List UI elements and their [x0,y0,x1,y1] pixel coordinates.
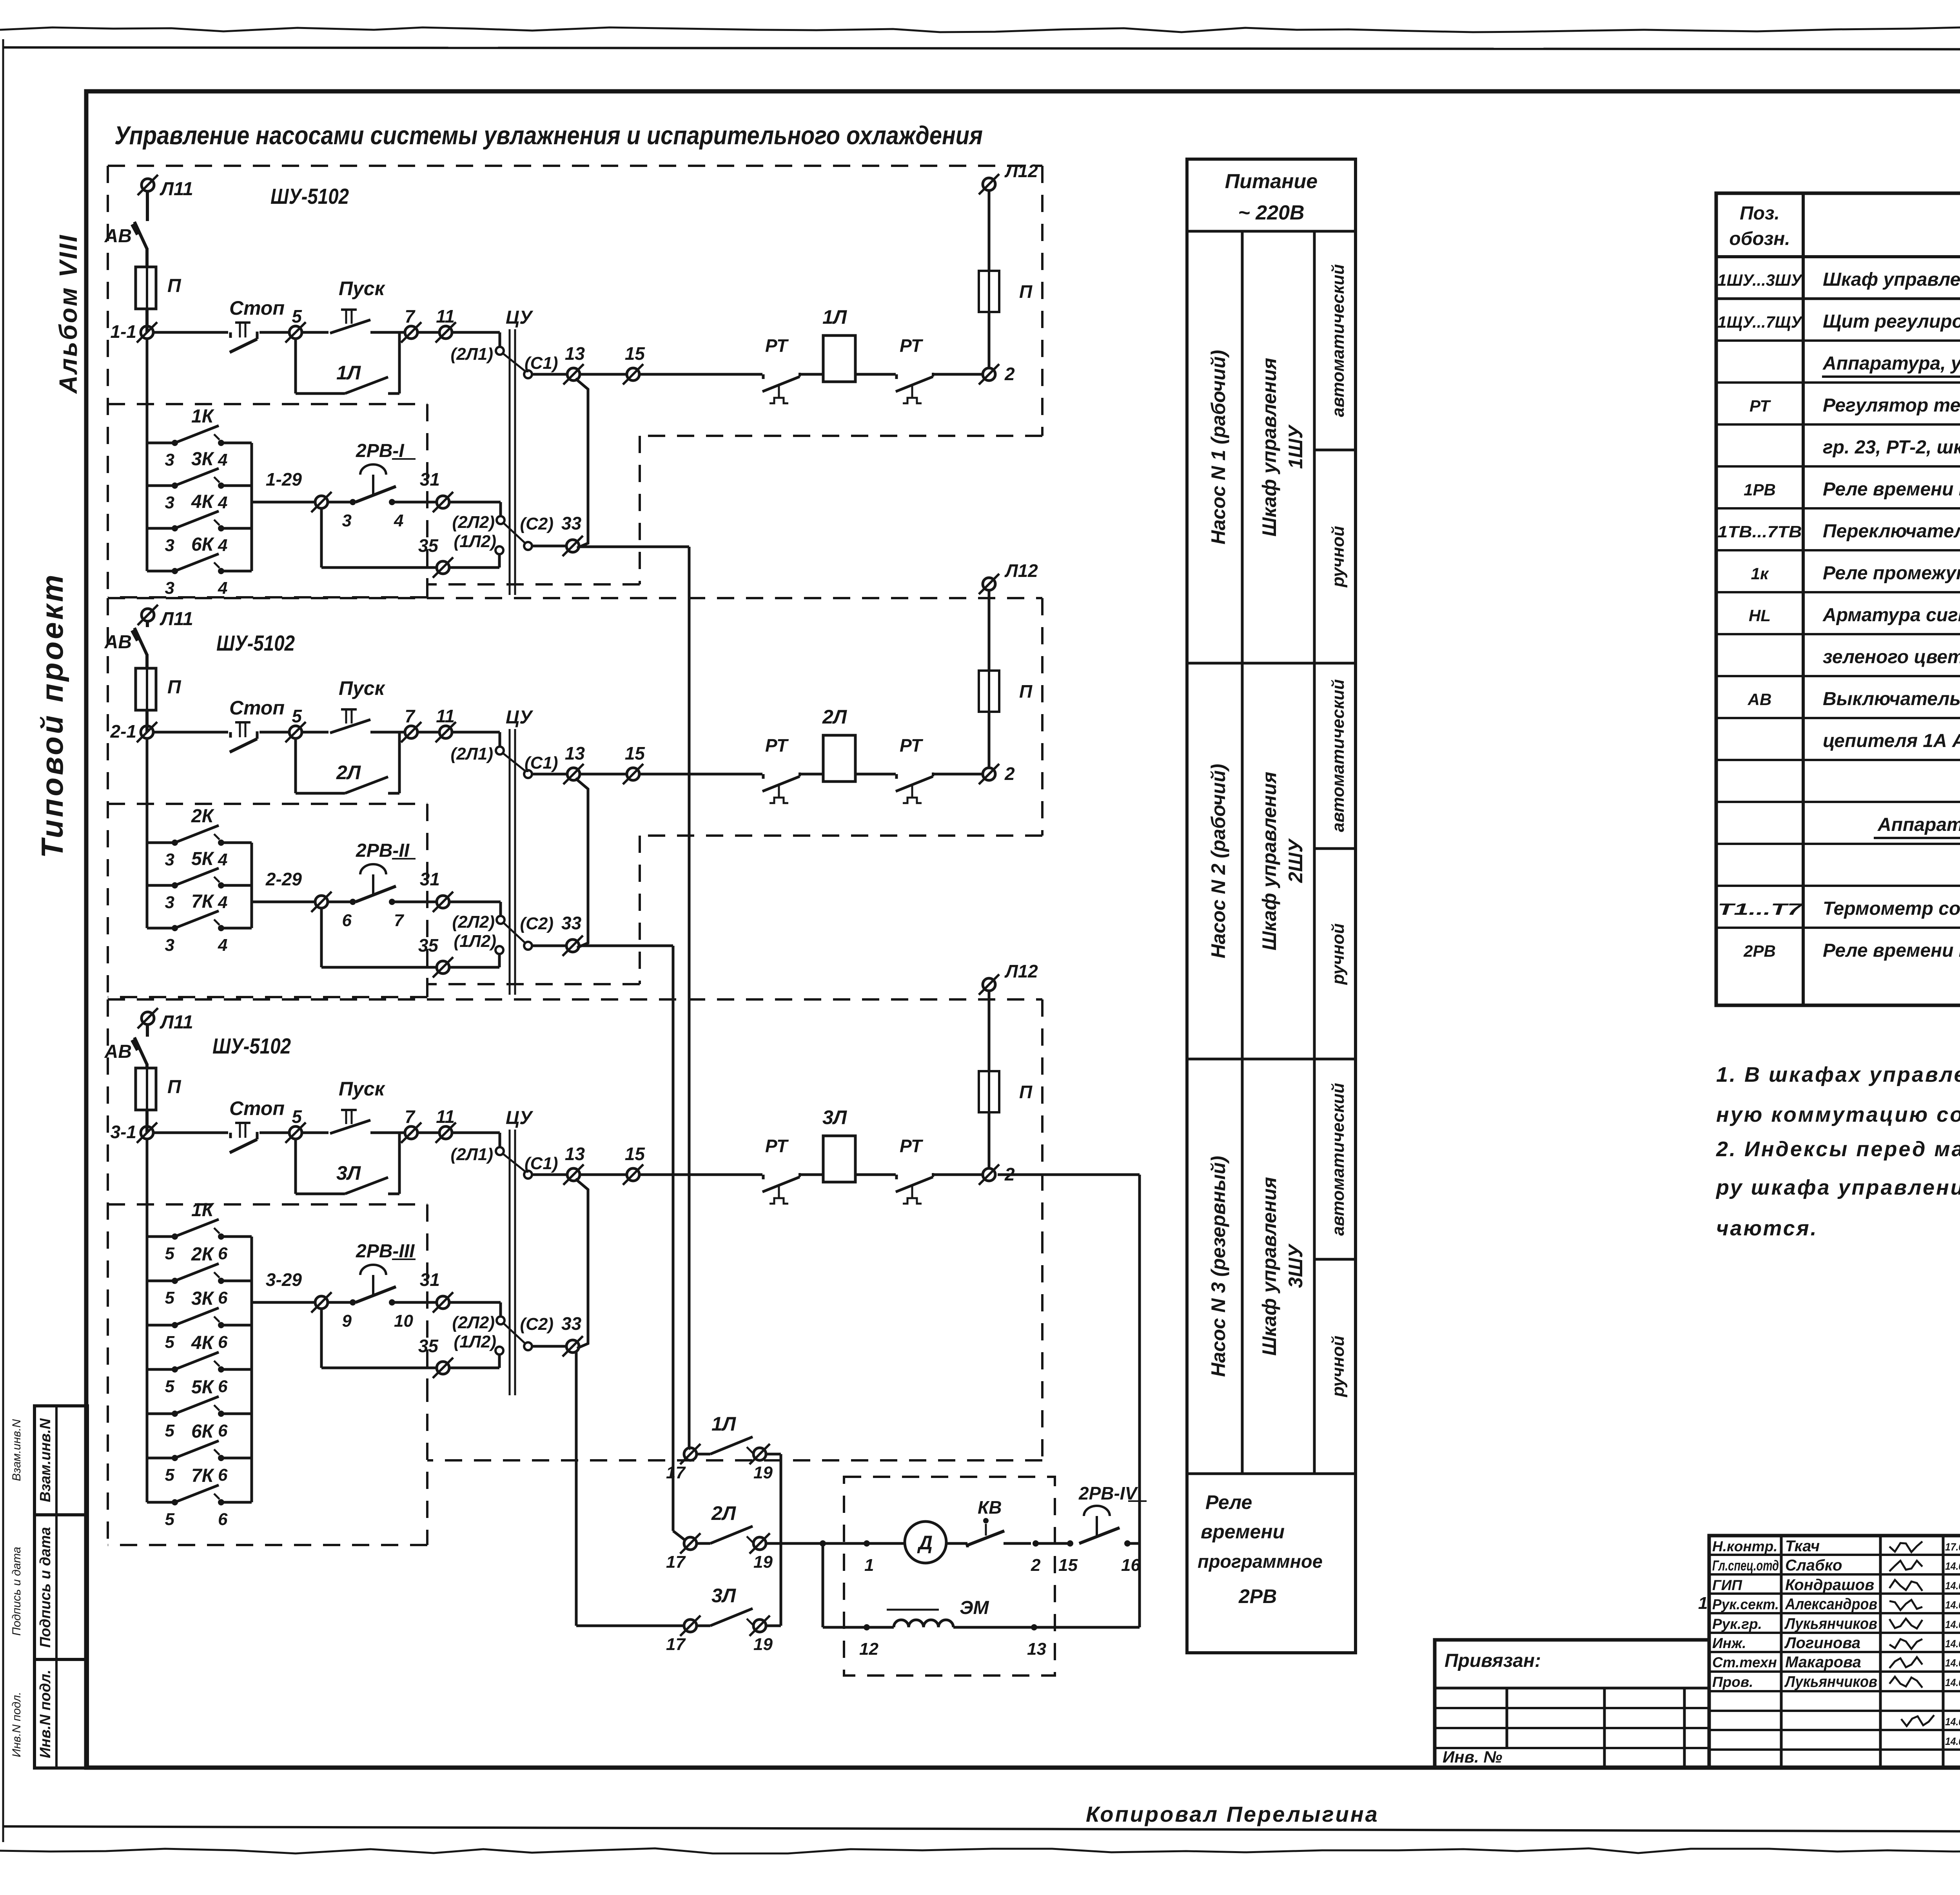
node (2Л2) (block 2) [497,916,505,924]
bus ЦУ (block 2) [509,729,511,995]
start pushbutton Пуск (block 1) [341,308,357,311]
svg-text:ГИП: ГИП [1712,1577,1742,1593]
paper bottom edge (scan) [0,1848,1960,1853]
wire [146,621,149,627]
relay contact 2К (block 2) [147,841,175,844]
ШУ-5102 cabinet 1 dashed outline [108,165,1042,167]
terminal Л12 (block 3) [983,978,995,991]
fuse П right (block 2) [979,671,999,712]
component row 7: Переключатель-тумблер ТЗ ВРО [1716,549,1960,551]
program time relay unit dashed box [844,1477,1055,1676]
svg-text:Александров: Александров [1785,1596,1877,1613]
svg-text:2ШУ: 2ШУ [1285,838,1307,883]
svg-text:ручной: ручной [1328,923,1348,985]
rail from 2-1 down to interlock ladder (block 2) [146,738,149,928]
wire [392,501,437,504]
svg-text:(2Л1): (2Л1) [451,744,493,763]
relay contact 1К (block 3) [147,1235,175,1238]
wire from 3-29 down to 35 row [320,1308,323,1368]
wire [855,773,896,776]
svg-text:АВ: АВ [104,632,132,653]
wire [532,373,568,376]
svg-text:Шкаф управления: Шкаф управления [1258,772,1280,950]
svg-text:3К: 3К [191,1288,215,1309]
svg-text:10: 10 [394,1311,413,1331]
wire [392,901,437,903]
wire [449,501,501,504]
changeover node (2Л1) (block 3) [496,1147,504,1155]
svg-text:Лукьянчиков: Лукьянчиков [1784,1615,1877,1632]
wire [503,1323,526,1344]
wire from 1-29 down to 35 row [320,508,323,568]
time relay contact 2РВ-IV [1084,1506,1110,1516]
thermal contact РТ left (block 2) [762,774,765,779]
svg-text:ру шкафа управления 1ШУ...: ру шкафа управления 1ШУ... 3ШУ, к которо… [1715,1176,1960,1199]
svg-text:Л12: Л12 [1004,560,1038,581]
node (С2) (block 1) [524,542,532,550]
fuse П right (block 1) [979,271,999,312]
component row 14: Аппаратура по месту [1716,843,1960,845]
svg-text:Взам.инв.N: Взам.инв.N [37,1418,54,1502]
terminal 2-29 (block 2) [315,896,328,908]
svg-text:П: П [1019,681,1033,702]
wire [301,331,328,334]
node 2 [1033,1540,1039,1547]
wire riser from 13 to 33 row [575,778,588,948]
wire [260,331,290,334]
node (С2) (block 2) [524,942,532,950]
svg-text:2: 2 [1004,364,1015,384]
time relay contact 2РВ-I (block 1) [350,499,356,505]
terminal 15 (block 2) [627,768,639,780]
circuit breaker АВ (block 3) [134,1037,147,1064]
electromagnet coil ЭМ [894,1620,953,1627]
wire [503,522,526,544]
svg-text:(1Л2): (1Л2) [454,532,496,551]
svg-text:5К: 5К [191,1377,215,1398]
svg-text:автоматический: автоматический [1328,264,1348,417]
wire [449,901,501,903]
svg-text:5: 5 [165,1421,175,1440]
svg-text:Ткач: Ткач [1785,1538,1820,1555]
svg-text:15: 15 [1058,1556,1078,1575]
svg-text:(1Л2): (1Л2) [454,932,496,951]
feed table row Насос N2 [1187,662,1356,665]
svg-text:Слабко: Слабко [1785,1557,1842,1574]
interlock ladder right rail (block 1) [250,443,253,571]
relay contact 3Л (pump indication) [684,1619,697,1632]
svg-text:ШУ-5102: ШУ-5102 [270,184,349,209]
svg-text:П: П [167,1077,181,1097]
terminal 3-1 (block 3) [141,1126,153,1139]
svg-text:17: 17 [666,1463,686,1482]
terminal 2 (block 1) [983,368,995,381]
svg-text:4: 4 [218,893,227,912]
svg-text:5: 5 [292,1106,302,1127]
component row 11: Выключатель автоматический [1716,717,1960,719]
rail from 3-1 down to interlock ladder (block 3) [146,1139,149,1502]
svg-text:Л11: Л11 [160,609,193,629]
svg-text:35: 35 [418,1336,439,1356]
svg-text:зеленого цвета АС-220: зеленого цвета АС-220 [1823,647,1960,667]
svg-text:Пров.: Пров. [1712,1674,1753,1690]
terminal 7 (block 1) [405,326,417,339]
svg-text:АВ: АВ [104,1041,132,1062]
terminal 15 (block 1) [627,368,639,381]
svg-text:Питание: Питание [1225,170,1318,193]
svg-text:7К: 7К [191,891,215,912]
svg-text:автоматический: автоматический [1328,1083,1348,1236]
svg-text:5: 5 [292,306,302,326]
svg-text:1: 1 [864,1556,874,1575]
ШУ-5102 cabinet 2 dashed outline [108,597,1042,599]
terminal 11 (block 2) [439,726,452,738]
node (С2) (block 3) [524,1342,532,1350]
wire [953,1626,1140,1629]
svg-text:33: 33 [561,913,582,933]
svg-text:3: 3 [165,493,174,512]
svg-text:35: 35 [418,935,439,956]
svg-text:Стоп: Стоп [229,1097,285,1119]
terminal 31 (block 2) [437,896,449,908]
wire [1036,1542,1068,1545]
terminal 33 (block 2) [566,939,579,952]
svg-text:9: 9 [342,1311,352,1331]
wire [370,1132,405,1134]
wire from block3 terminal 33 to contact 3Л [575,1351,578,1626]
component row 3: Аппаратура, установленная на [1716,381,1960,384]
component row 5: гр. 23, РТ-2, шкала 0... [1716,465,1960,468]
svg-text:Стоп: Стоп [229,697,285,719]
svg-text:Пуск: Пуск [339,677,386,699]
svg-text:(2Л2): (2Л2) [452,513,495,532]
wire [145,309,149,332]
svg-text:19: 19 [753,1635,773,1654]
wire [800,373,823,376]
svg-text:5: 5 [292,706,302,726]
wire [988,190,991,271]
wire [449,1367,499,1369]
changeover node (2Л1) (block 1) [496,347,504,355]
svg-text:HL: HL [1749,606,1771,625]
svg-text:Шкаф управления: Шкаф управления [1258,1177,1280,1356]
svg-text:13: 13 [565,1144,585,1164]
wire [855,373,896,376]
latching contact 2Л (block 2) [294,738,297,793]
svg-text:Ст.техн: Ст.техн [1712,1654,1777,1670]
svg-text:2РВ: 2РВ [1743,942,1776,960]
component row 8: Реле промежуточное РПУ-1-0 [1716,591,1960,593]
svg-text:РТ: РТ [900,735,924,756]
terminal 11 (block 3) [439,1126,452,1139]
svg-text:Лукьянчиков: Лукьянчиков [1784,1673,1877,1690]
svg-text:6: 6 [218,1510,228,1529]
svg-text:Термометр сопротивления, гр.: Термометр сопротивления, гр. 23, ТСМ-609… [1823,898,1960,919]
svg-text:РТ: РТ [900,335,924,356]
terminal 31 (block 1) [437,496,449,508]
contactor coil 2Л (block 2) [823,735,855,782]
wire [327,1301,353,1304]
wire from block1 terminal 33 to contact 1Л [579,546,689,548]
wire [153,1132,228,1134]
svg-text:(С2): (С2) [520,914,554,933]
node 1 [864,1540,870,1547]
svg-text:14.01.86: 14.01.86 [1945,1599,1960,1611]
svg-text:16: 16 [1121,1556,1140,1575]
svg-text:5: 5 [165,1244,175,1263]
start pushbutton Пуск (block 3) [341,1109,357,1111]
svg-text:П: П [1019,281,1033,302]
svg-text:Насос N 1 (рабочий): Насос N 1 (рабочий) [1207,350,1229,545]
svg-text:РТ: РТ [765,335,789,356]
svg-text:14.01.86: 14.01.86 [1945,1677,1960,1688]
wire [532,545,567,548]
svg-text:КВ: КВ [978,1497,1002,1518]
svg-text:17.01.86: 17.01.86 [1945,1541,1960,1553]
svg-text:1-29: 1-29 [266,469,302,490]
thermal contact РТ right (block 1) [895,374,898,379]
svg-text:обозн.: обозн. [1729,228,1790,249]
svg-text:3: 3 [165,893,174,912]
svg-text:ЭМ: ЭМ [960,1598,989,1618]
svg-text:Кондрашов: Кондрашов [1785,1576,1874,1594]
svg-text:Д: Д [917,1532,933,1554]
wire [327,901,353,903]
svg-text:14.01.86: 14.01.86 [1945,1735,1960,1747]
svg-text:6К: 6К [191,1421,215,1442]
component row 16: Термометр сопротивления, г [1716,927,1960,929]
wire [503,1153,526,1172]
component row 10: зеленого цвета АС-220 [1716,675,1960,677]
svg-text:7: 7 [405,1106,416,1127]
relay contact 3К (block 3) [147,1324,175,1327]
svg-text:времени: времени [1201,1521,1285,1543]
svg-text:1ШУ: 1ШУ [1285,424,1307,469]
terminal 33 (block 3) [566,1340,579,1353]
terminal 15 (block 3) [627,1168,639,1181]
svg-text:1К: 1К [191,1200,215,1220]
svg-text:3К: 3К [191,449,215,470]
svg-text:Стоп: Стоп [229,297,285,319]
terminal Л12 (block 2) [983,578,995,590]
svg-text:33: 33 [561,513,582,533]
svg-text:3: 3 [342,511,352,530]
svg-text:2-29: 2-29 [265,869,302,889]
svg-text:1Л: 1Л [822,306,848,328]
svg-text:15: 15 [625,343,646,364]
svg-text:ручной: ручной [1328,526,1348,588]
svg-text:Т1...Т7: Т1...Т7 [1718,900,1803,918]
wire [145,710,149,732]
svg-text:Реле времени программное ВС: Реле времени программное ВС-10-62 [1823,479,1960,500]
stop pushbutton Стоп (block 3) [235,1122,250,1124]
svg-text:2: 2 [1004,763,1015,784]
svg-text:(С2): (С2) [520,514,554,533]
wire [417,731,440,734]
wire [301,1132,328,1134]
svg-text:3: 3 [165,536,174,555]
svg-text:Макарова: Макарова [1785,1654,1861,1671]
left margin box Взам.инв.N [34,1406,87,1515]
svg-text:РТ: РТ [900,1136,924,1156]
svg-text:ЦУ: ЦУ [506,707,534,728]
svg-text:5К: 5К [191,849,215,869]
relay contact 6К (block 1) [147,570,175,573]
wire [855,1173,896,1176]
svg-text:ЦУ: ЦУ [506,307,534,328]
svg-text:35: 35 [418,535,439,556]
wire [449,966,499,969]
node 12 [864,1624,870,1630]
terminal 2 (block 2) [983,768,995,780]
terminal 2 (block 3) [983,1168,995,1181]
svg-text:11: 11 [436,306,455,326]
svg-text:Управление насосами системы: Управление насосами системы увлажнения и… [114,121,983,150]
thermal contact РТ left (block 3) [762,1175,765,1179]
wire [260,1132,290,1134]
svg-text:1ЩУ...7ЩУ: 1ЩУ...7ЩУ [1718,313,1803,331]
node (1Л2) (block 3) [495,1347,503,1355]
svg-text:Логинова: Логинова [1784,1634,1860,1652]
wire [639,773,762,776]
svg-text:2Л: 2Л [336,762,361,783]
component row 4: Регулятор температуры электр [1716,423,1960,426]
svg-text:6: 6 [342,911,352,930]
node 16 [1124,1540,1131,1547]
svg-text:Л12: Л12 [1004,161,1038,181]
terminal 1-1 (block 1) [141,326,153,339]
svg-text:автоматический: автоматический [1328,679,1348,832]
svg-text:программное: программное [1198,1551,1323,1572]
svg-text:13: 13 [1027,1639,1046,1659]
svg-text:ЦУ: ЦУ [506,1108,534,1128]
contactor coil 1Л (block 1) [823,335,855,382]
terminal 33 (block 1) [566,540,579,552]
wire [988,312,991,368]
wire [1127,1542,1140,1545]
wire [370,731,405,734]
svg-text:Л11: Л11 [160,179,193,199]
wire [392,1301,437,1304]
svg-text:6: 6 [218,1377,228,1396]
svg-text:Шкаф управления: Шкаф управления [1258,358,1280,537]
wire [933,1173,983,1176]
wire [145,248,149,267]
contactor coil 3Л (block 3) [823,1136,855,1182]
svg-text:чаются.: чаются. [1716,1217,1818,1240]
component row 12: цепителя 1А А63-М [1716,759,1960,761]
svg-text:Привязан:: Привязан: [1445,1650,1541,1671]
svg-text:19: 19 [753,1552,773,1572]
svg-text:Рук.сект.: Рук.сект. [1712,1596,1779,1612]
svg-text:2-1: 2-1 [110,721,136,742]
svg-text:2: 2 [1031,1556,1041,1575]
svg-text:14.01.86: 14.01.86 [1945,1560,1960,1572]
motor Д (programm drive) [905,1521,946,1563]
svg-text:Переключатель-тумблер ТЗ ВРО.: Переключатель-тумблер ТЗ ВРО. 360 [1823,521,1960,542]
wire [532,1345,567,1348]
component row 15: blank [1716,885,1960,887]
wire [146,191,149,221]
wire [800,1173,823,1176]
svg-text:5: 5 [165,1288,175,1307]
wire from block2 terminal 33 to contact 2Л [579,945,673,947]
svg-text:Шкаф управления: Шкаф управления [1823,269,1960,290]
svg-text:Типовой проект: Типовой проект [35,573,69,858]
svg-text:(2Л2): (2Л2) [452,1313,495,1332]
svg-text:ручной: ручной [1328,1336,1348,1397]
wire [933,773,983,776]
svg-text:3-29: 3-29 [266,1269,302,1290]
svg-text:Инв. №: Инв. № [1443,1748,1502,1766]
svg-text:1. В шкафах управления 1ШУ.: 1. В шкафах управления 1ШУ... 3ШУ выполн… [1716,1063,1960,1086]
svg-text:3Л: 3Л [336,1162,361,1184]
svg-text:1Л: 1Л [711,1413,737,1435]
wire [933,373,983,376]
wire [452,731,500,734]
terminal Л12 (block 1) [983,178,995,190]
svg-text:5: 5 [165,1465,175,1485]
terminal 3-29 (block 3) [315,1296,328,1309]
wire [301,731,328,734]
terminal Л11 (block 3) [142,1012,154,1025]
svg-text:4: 4 [218,578,227,598]
component row 9: Арматура сигнальной лампыс [1716,633,1960,635]
svg-text:3: 3 [165,450,174,470]
svg-text:17: 17 [666,1552,686,1572]
component row 2: Щит регулирования [1716,339,1960,342]
terminal 35 (block 2) [437,961,449,974]
wire [988,1112,991,1169]
feed table row Насос N3 [1187,1058,1356,1061]
svg-text:цепителя 1А А63-М: цепителя 1А А63-М [1823,731,1960,751]
svg-text:7К: 7К [191,1465,215,1486]
svg-text:3Л: 3Л [711,1585,737,1607]
svg-text:Реле времени программное ВС: Реле времени программное ВС-10-62 [1823,940,1960,961]
component list table frame [1716,193,1960,1005]
svg-text:1К: 1К [191,406,215,427]
circuit breaker АВ (block 2) [134,628,147,655]
svg-text:31: 31 [420,1269,440,1290]
ШУ-5102 cabinet 3 dashed outline [108,998,1042,1001]
svg-text:Насос N 2 (рабочий): Насос N 2 (рабочий) [1207,764,1229,959]
svg-text:11: 11 [436,1106,455,1127]
svg-text:3ШУ: 3ШУ [1285,1243,1307,1288]
svg-text:2К: 2К [191,806,215,827]
svg-text:7: 7 [405,306,416,326]
svg-text:3: 3 [165,936,174,955]
svg-text:14.01.86: 14.01.86 [1945,1657,1960,1669]
terminal Л11 (block 1) [142,179,154,191]
interlock ladder right rail (block 3) [250,1237,253,1502]
svg-text:Поз.: Поз. [1740,203,1780,224]
svg-text:4К: 4К [191,491,215,512]
svg-text:6: 6 [218,1421,228,1440]
svg-text:П: П [1019,1082,1033,1102]
svg-text:31: 31 [420,469,440,490]
svg-text:2Л: 2Л [822,706,848,728]
terminal 35 (block 3) [437,1362,449,1374]
node 15 [1067,1540,1073,1547]
svg-text:Арматура сигнальной лампыс: Арматура сигнальной лампыс линзой [1822,605,1960,626]
wire [260,731,290,734]
svg-text:Л12: Л12 [1004,961,1038,981]
terminal 5 (block 1) [289,326,302,339]
svg-text:П: П [167,677,181,698]
terminal 13 (block 1) [567,368,580,381]
svg-text:Пуск: Пуск [339,277,386,299]
relay contact 1К (block 1) [147,442,175,444]
